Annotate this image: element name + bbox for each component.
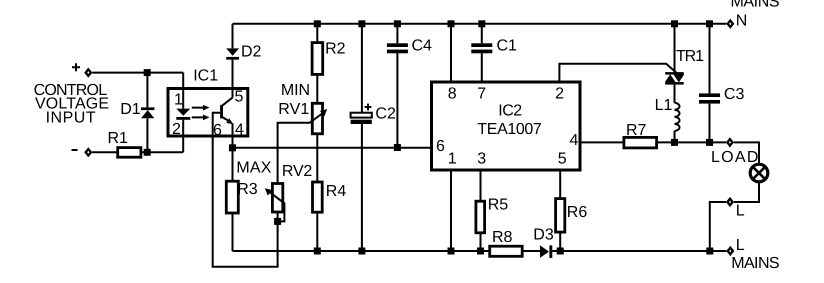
svg-text:C2: C2 bbox=[375, 105, 396, 122]
svg-text:MAINS: MAINS bbox=[731, 0, 780, 11]
svg-text:R3: R3 bbox=[237, 181, 258, 198]
svg-text:LOAD: LOAD bbox=[711, 149, 758, 166]
svg-text:1: 1 bbox=[448, 151, 457, 168]
svg-text:5: 5 bbox=[558, 151, 567, 168]
svg-text:C1: C1 bbox=[497, 38, 518, 55]
svg-text:6: 6 bbox=[213, 122, 222, 139]
svg-text:D1: D1 bbox=[120, 101, 141, 118]
svg-text:2: 2 bbox=[555, 85, 564, 102]
svg-text:MAINS: MAINS bbox=[731, 255, 779, 272]
svg-text:L1: L1 bbox=[655, 97, 673, 114]
svg-text:8: 8 bbox=[448, 85, 457, 102]
svg-text:C4: C4 bbox=[412, 38, 433, 55]
svg-text:RV1: RV1 bbox=[278, 101, 309, 118]
svg-text:D3: D3 bbox=[533, 227, 554, 244]
svg-text:7: 7 bbox=[477, 85, 486, 102]
svg-text:C3: C3 bbox=[724, 86, 745, 103]
svg-text:3: 3 bbox=[477, 151, 486, 168]
svg-text:R7: R7 bbox=[626, 122, 647, 139]
svg-text:4: 4 bbox=[235, 122, 244, 139]
svg-text:IC1: IC1 bbox=[193, 67, 218, 84]
svg-text:RV2: RV2 bbox=[282, 163, 312, 180]
svg-text:IC2: IC2 bbox=[498, 103, 522, 120]
svg-text:2: 2 bbox=[172, 121, 181, 138]
svg-text:MIN: MIN bbox=[281, 82, 310, 99]
svg-text:1: 1 bbox=[174, 92, 183, 109]
svg-text:INPUT: INPUT bbox=[46, 109, 96, 126]
svg-text:L: L bbox=[736, 237, 745, 254]
svg-text:R4: R4 bbox=[326, 183, 347, 200]
svg-text:5: 5 bbox=[235, 89, 244, 106]
svg-text:MAX: MAX bbox=[236, 160, 271, 177]
svg-text:6: 6 bbox=[436, 138, 445, 155]
svg-text:4: 4 bbox=[570, 132, 579, 149]
svg-text:R5: R5 bbox=[488, 197, 509, 214]
svg-text:TEA1007: TEA1007 bbox=[477, 121, 541, 138]
svg-text:R8: R8 bbox=[492, 229, 513, 246]
svg-text:R1: R1 bbox=[108, 130, 129, 147]
svg-text:L: L bbox=[736, 203, 745, 220]
svg-text:R2: R2 bbox=[325, 41, 346, 58]
svg-text:TR1: TR1 bbox=[676, 48, 704, 65]
svg-text:R6: R6 bbox=[567, 204, 588, 221]
svg-text:D2: D2 bbox=[241, 44, 262, 61]
svg-text:N: N bbox=[736, 12, 748, 29]
